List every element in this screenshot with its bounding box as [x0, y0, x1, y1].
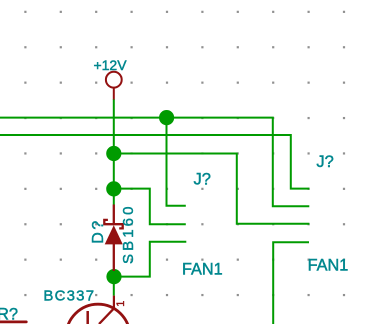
svg-text:1: 1 — [115, 301, 127, 307]
wire: +12V vertical down to diode cathode lead — [113, 99, 115, 205]
transistor collector pin — [113, 296, 115, 309]
transistor collector diagonal — [99, 308, 114, 324]
junction diode bottom node — [106, 269, 121, 284]
wire: diode bottom node down to transistor collector pin — [113, 277, 115, 296]
junction wire C tap — [106, 146, 121, 161]
svg-text:FAN1: FAN1 — [182, 260, 223, 278]
transistor base bar — [86, 311, 89, 324]
wire: drop from junction on wire A to left connector pin 1 — [167, 118, 186, 206]
wire: from diode-bottom junction up to left connector pin 3 — [114, 242, 187, 277]
junction diode top node — [106, 181, 121, 196]
diode D? top lead — [113, 205, 115, 224]
diode D? schottky cathode bar — [104, 220, 122, 229]
svg-text:FAN1: FAN1 — [308, 256, 349, 274]
junction on wire A — [159, 110, 174, 125]
svg-text:R?: R? — [0, 305, 18, 323]
svg-text:SB160: SB160 — [120, 203, 137, 264]
diode D? triangle — [105, 225, 123, 244]
svg-text:D?: D? — [90, 218, 107, 244]
svg-text:J?: J? — [194, 170, 211, 188]
svg-text:BC337: BC337 — [43, 287, 95, 304]
diode D? bottom lead — [113, 244, 115, 271]
wire: from diode-top junction to left connector pin 2 — [114, 189, 186, 225]
wire B: second horizontal bus, corner down to right connector pin 1 — [0, 135, 309, 189]
resistor R? body (clipped at corner) — [0, 321, 26, 324]
power symbol +12V pin — [113, 88, 115, 100]
transistor Q1 BC337 body circle — [66, 304, 130, 324]
svg-text:J?: J? — [316, 153, 333, 171]
wire C: from node at +12V rail to right connector pin 3 — [114, 154, 310, 224]
power symbol +12V circle — [106, 72, 122, 88]
wire A: +12V bus top horizontal, corner down to right connector pin 2 — [0, 118, 309, 207]
svg-text:+12V: +12V — [93, 57, 127, 73]
wire: from bottom edge up to right connector pin 4 — [273, 242, 309, 324]
